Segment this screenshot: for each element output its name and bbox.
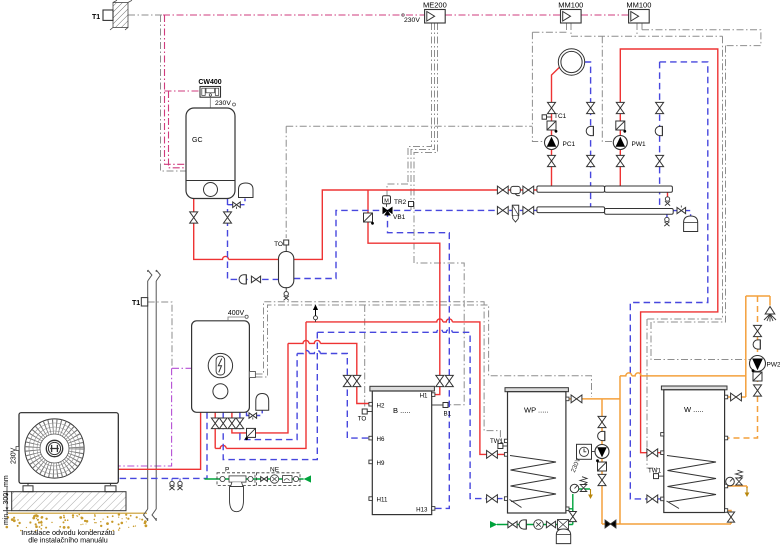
header drain	[285, 288, 287, 292]
pump PC1	[545, 136, 559, 150]
ground speckles	[6, 513, 148, 531]
heat pump feet	[23, 486, 33, 492]
gravity brake circulation	[598, 431, 605, 440]
valve circuit2 flow top	[616, 102, 624, 113]
wire TR2 sensor stub	[410, 207, 412, 211]
valve WP cold feed	[569, 512, 576, 522]
air vent manifold return	[665, 217, 669, 221]
pink branch to CW400	[165, 90, 201, 92]
check valve manifold supply	[511, 186, 521, 193]
controller CW400	[200, 87, 221, 98]
svg-text:230V: 230V	[404, 17, 420, 24]
check valve circulation	[598, 462, 607, 471]
svg-text:P: P	[225, 467, 229, 474]
valve buffer H13	[445, 375, 453, 386]
boiler expansion vessel	[239, 183, 254, 198]
valve boiler flow	[190, 212, 198, 223]
wire DHW charge flow indoor unit to WP tank	[215, 319, 507, 454]
sensor T1 (outdoor, boiler)	[103, 10, 113, 20]
valve indoor unit conn 1	[211, 418, 219, 429]
valve circuit1 flow bottom	[548, 155, 556, 166]
indoor unit drain valve	[249, 413, 257, 419]
valve DHW bottom line (black)	[605, 520, 616, 528]
valve manifold supply inlet 2	[523, 186, 534, 194]
wire circulation return (dashed) through PW2	[725, 296, 758, 438]
svg-text:min.: min.	[3, 512, 10, 525]
gauge WP safety group	[570, 484, 579, 493]
gravity brake circuit2	[655, 126, 662, 135]
valve WP outlet	[571, 395, 582, 403]
wire heating circuit 1 flow riser	[552, 67, 560, 186]
motor M of valve VB1	[383, 196, 391, 207]
valve VB1 three-way	[383, 207, 393, 215]
safety discharge arrow	[313, 305, 318, 322]
expansion vessel heating	[684, 216, 698, 232]
wire boiler flow pipe	[194, 199, 279, 260]
svg-text:TO: TO	[358, 416, 367, 423]
manifold supply bar	[537, 186, 605, 192]
valve manifold return inlet 2	[523, 207, 534, 215]
wire circulation pump column WP	[601, 399, 603, 524]
wire to motor M of VB1	[387, 184, 408, 196]
wire buffer charge flow indoor unit to H2	[232, 340, 370, 433]
wire ME200 bundle	[408, 23, 464, 405]
wire main return header from manifold	[294, 210, 537, 278]
pink drop to boiler	[165, 15, 187, 164]
svg-text:T1: T1	[132, 300, 140, 307]
wire DHW supply top run	[620, 373, 746, 376]
wire heating circuit 2 return and W tank return	[630, 62, 708, 499]
svg-text:TC1: TC1	[554, 113, 567, 120]
valve manifold supply inlet 1	[497, 186, 508, 194]
wire DHW bottom connecting line	[602, 523, 731, 525]
wire main flow header to manifold	[294, 190, 537, 259]
module MM100	[626, 1, 651, 24]
wire indoor unit expansion vessel link	[247, 410, 263, 415]
boiler GC	[186, 108, 235, 199]
valve W flow	[647, 449, 658, 457]
cold water arrow (WP feed)	[490, 521, 497, 528]
WP coil	[510, 456, 556, 502]
module ME200	[423, 1, 447, 24]
svg-text:230V: 230V	[11, 447, 18, 464]
heat pump outdoor unit	[16, 413, 118, 484]
svg-text:400V: 400V	[228, 310, 245, 317]
svg-text:PC1: PC1	[563, 141, 576, 148]
sensor TW1 WP	[498, 444, 503, 449]
svg-text:H6: H6	[377, 436, 385, 443]
valve W bottom	[727, 512, 734, 522]
valve circulation column top	[598, 416, 606, 427]
module MM100	[558, 1, 583, 24]
wire bus to pump PC1	[532, 32, 544, 141]
check valve on return before header	[239, 275, 246, 284]
ground line	[8, 512, 147, 514]
wire WP safety group stub	[573, 489, 590, 509]
wire stubs MM100-2	[637, 23, 642, 36]
svg-text:mm: mm	[3, 475, 10, 487]
wire VB1 return to buffer H13	[388, 210, 450, 508]
wire cold water inlet to heat pump circuit	[205, 478, 304, 480]
valve circuit1 flow top	[548, 102, 556, 113]
svg-text:GC: GC	[192, 137, 203, 144]
svg-text:TR2: TR2	[394, 199, 407, 206]
wire CW400 to boiler	[209, 97, 211, 108]
safety valve W	[736, 478, 743, 485]
expansion vessel cold (below)	[556, 529, 570, 544]
wire bus drop to boiler (gray)	[161, 15, 187, 171]
svg-text:300: 300	[3, 493, 10, 505]
cold water arrow (NE group)	[304, 475, 311, 482]
sensor TO buffer	[367, 411, 372, 413]
discharge arrow W	[746, 487, 748, 493]
svg-text:WP .....: WP .....	[524, 406, 548, 415]
gravity brake PW2	[753, 340, 760, 349]
valve buffer return (left pair)	[343, 375, 351, 386]
svg-text:M: M	[384, 198, 389, 204]
wire boiler return pipe	[228, 199, 279, 280]
svg-text:VB1: VB1	[393, 214, 406, 221]
svg-text:PW2: PW2	[767, 362, 780, 369]
sensor TW1 W	[654, 474, 659, 479]
wire WP tank DHW outlet	[566, 398, 620, 400]
wire W tank safety group stub	[725, 486, 747, 488]
svg-text:TW1: TW1	[648, 468, 662, 475]
filter cold line	[558, 520, 569, 530]
sensor B1 buffer	[432, 404, 443, 406]
DHW tank WP	[505, 388, 568, 513]
valve PW2 bottom	[754, 385, 762, 396]
check valve VB1 bypass	[364, 213, 373, 222]
svg-text:H1: H1	[420, 393, 428, 400]
group P (expansion)	[217, 473, 255, 487]
wire heat pump return line	[118, 412, 207, 478]
wire bus to boiler low-loss header sensor TO	[286, 125, 532, 127]
svg-text:T1: T1	[92, 14, 100, 21]
valve indoor unit conn 2	[219, 418, 227, 429]
valve W outlet	[731, 393, 742, 401]
sensor T1 (outdoor, heat pump)	[141, 298, 147, 306]
valve PW2 top	[754, 325, 762, 336]
wire boiler expansion vessel link	[228, 199, 246, 205]
svg-text:H2: H2	[377, 402, 385, 409]
wire heating circuit 1 return	[585, 62, 591, 207]
air vent manifold supply	[665, 197, 669, 201]
wire manifold return air vent stub	[666, 213, 668, 217]
sensor TR2	[409, 202, 414, 207]
wire bus to sensor TW1 (W tank)	[647, 36, 723, 471]
valve boiler return	[224, 212, 232, 223]
valve WP return	[487, 495, 498, 503]
svg-text:B1: B1	[444, 411, 452, 418]
pink 230V bus line T1 to ME200/MM100 modules	[163, 14, 629, 16]
interior wall	[144, 270, 161, 521]
valve circuit2 return bottom	[656, 155, 664, 166]
buffer tank B	[370, 386, 435, 514]
svg-text:H11: H11	[377, 497, 388, 504]
low-loss header	[279, 252, 294, 288]
valve WP flow	[487, 451, 498, 459]
safety valve WP	[580, 485, 587, 492]
gravity brake circuit1	[586, 126, 593, 135]
wire bus MM100-1 right to MM100-2	[571, 23, 723, 36]
svg-text:B .....: B .....	[393, 406, 411, 415]
DHW tank W	[661, 386, 727, 513]
check valve cold line	[519, 520, 526, 529]
wire to buffer tank sensor TO	[364, 305, 366, 409]
svg-text:230V: 230V	[215, 100, 231, 107]
wire VB1 bypass charge flow to buffer H1	[368, 190, 440, 395]
svg-text:TO: TO	[274, 241, 283, 248]
valve cold line 2	[546, 521, 555, 528]
valve indoor unit conn 4	[236, 418, 244, 429]
pump PW1	[613, 136, 627, 150]
indoor unit expansion vessel	[256, 394, 269, 411]
svg-text:MM100: MM100	[626, 1, 651, 10]
timer circulation pump	[577, 444, 596, 459]
wire heating circuit 2 flow riser and DHW-W charge flow	[620, 49, 718, 453]
violet bus heat pump to indoor unit	[118, 368, 191, 466]
check valve circuit1	[547, 121, 556, 130]
wire bus MM100-1 left	[532, 23, 566, 32]
valve circuit2 flow bottom	[616, 155, 624, 166]
wire bus top right	[642, 30, 761, 46]
W coil	[667, 456, 716, 503]
valve cold line 1	[508, 521, 517, 528]
wall section top-left	[110, 0, 132, 30]
heating circuit 1 symbol	[558, 49, 584, 75]
wire DHW return WP tank to indoor unit	[223, 329, 507, 498]
wire pair indoor unit to WP tank sensor	[256, 302, 501, 444]
check valve circuit2	[616, 121, 625, 130]
pressure reducer cold line	[534, 520, 544, 530]
valve circuit1 return bottom	[587, 155, 595, 166]
heat pump indoor unit	[192, 321, 256, 413]
valve circuit2 return top	[656, 102, 664, 113]
svg-text:TW1: TW1	[490, 438, 504, 445]
svg-text:ME200: ME200	[423, 1, 447, 10]
check valve PW2	[753, 372, 762, 381]
valve circulation column bottom	[598, 474, 606, 485]
wire DHW riser between tanks	[619, 376, 621, 524]
wire manifold return to expansion vessel	[673, 211, 690, 217]
buffer stubs H2 H6 H9 H11	[369, 393, 435, 510]
wire DHW tap riser	[746, 296, 770, 397]
valve circuit1 return top	[587, 102, 595, 113]
dirt separator manifold return	[512, 205, 518, 215]
wire heat pump flow line	[118, 412, 200, 469]
manifold return bar	[537, 207, 605, 213]
wire T1 wall sensor down to heat pump indoor unit	[148, 302, 172, 368]
wire cold water feed to WP tank	[497, 509, 573, 525]
pink drop to boiler second	[169, 91, 187, 168]
wire bus to pump PW1	[602, 36, 613, 141]
pump PW2	[750, 356, 766, 372]
dimension min 300 mm	[3, 487, 12, 516]
discharge arrow WP	[590, 489, 592, 495]
valve manifold return inlet 1	[497, 207, 508, 215]
gauge W safety group	[726, 477, 735, 486]
valve on return before header	[251, 276, 260, 283]
wire manifold supply air vent stub	[667, 192, 669, 196]
sensor TC1	[547, 116, 552, 118]
group NE (filling)	[257, 473, 301, 486]
valve buffer H1	[436, 375, 444, 386]
concrete base	[12, 492, 126, 511]
valve buffer flow (left pair)	[353, 375, 361, 386]
wire bus to pump PW2	[651, 46, 751, 360]
valve indoor unit conn 3	[228, 418, 236, 429]
svg-text:PW1: PW1	[632, 141, 646, 148]
label 400V	[228, 317, 245, 321]
svg-text:dle instalačního manuálu: dle instalačního manuálu	[28, 536, 108, 545]
expansion vessel DHW	[230, 487, 244, 512]
sensor TO header	[284, 240, 289, 245]
wire buffer return H6 to indoor unit	[240, 351, 370, 440]
drain taps under heat pump lines	[169, 478, 182, 490]
check valve buffer charge	[247, 428, 256, 437]
svg-text:H13: H13	[416, 507, 428, 514]
boiler drain valve	[233, 202, 241, 208]
svg-text:CW400: CW400	[198, 79, 221, 86]
svg-text:NE: NE	[270, 467, 280, 474]
shower symbol	[765, 307, 775, 315]
pump circulation WP	[595, 445, 609, 459]
svg-text:W .....: W .....	[684, 405, 704, 414]
valve at manifold return end	[677, 208, 686, 214]
valve W return	[647, 495, 658, 503]
wire W tank DHW outlet	[725, 396, 746, 398]
svg-text:MM100: MM100	[558, 1, 583, 10]
svg-text:H9: H9	[377, 460, 385, 467]
wire T1 outdoor sensor to bus	[128, 14, 163, 16]
wire W tank bottom outlet	[725, 511, 731, 525]
